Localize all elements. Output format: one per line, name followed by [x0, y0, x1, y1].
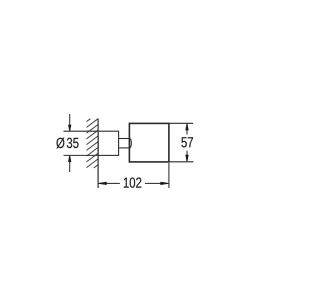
label &#216;35	[56, 137, 78, 148]
wall escutcheon (mount plate)	[98, 131, 119, 155]
dim 57 extension line top	[170, 122, 194, 124]
wall hatching	[87, 119, 99, 168]
label 57	[181, 137, 193, 147]
dim &#216;35 arrow bottom	[68, 155, 71, 172]
wall line (also left extension line of 102 dim)	[97, 119, 99, 188]
dim &#216;35 extension line bottom	[64, 154, 99, 156]
dim &#216;35 arrow top	[68, 114, 71, 131]
dim 102 right extension line	[168, 163, 170, 188]
holder cup	[129, 123, 169, 161]
dim 102 line + arrows	[98, 182, 169, 185]
dim 57 line + arrows	[185, 123, 188, 161]
connector stem	[119, 139, 132, 148]
dim 57 extension line bottom	[170, 161, 194, 163]
label 102	[124, 177, 142, 187]
dim &#216;35 extension line top	[64, 130, 99, 132]
